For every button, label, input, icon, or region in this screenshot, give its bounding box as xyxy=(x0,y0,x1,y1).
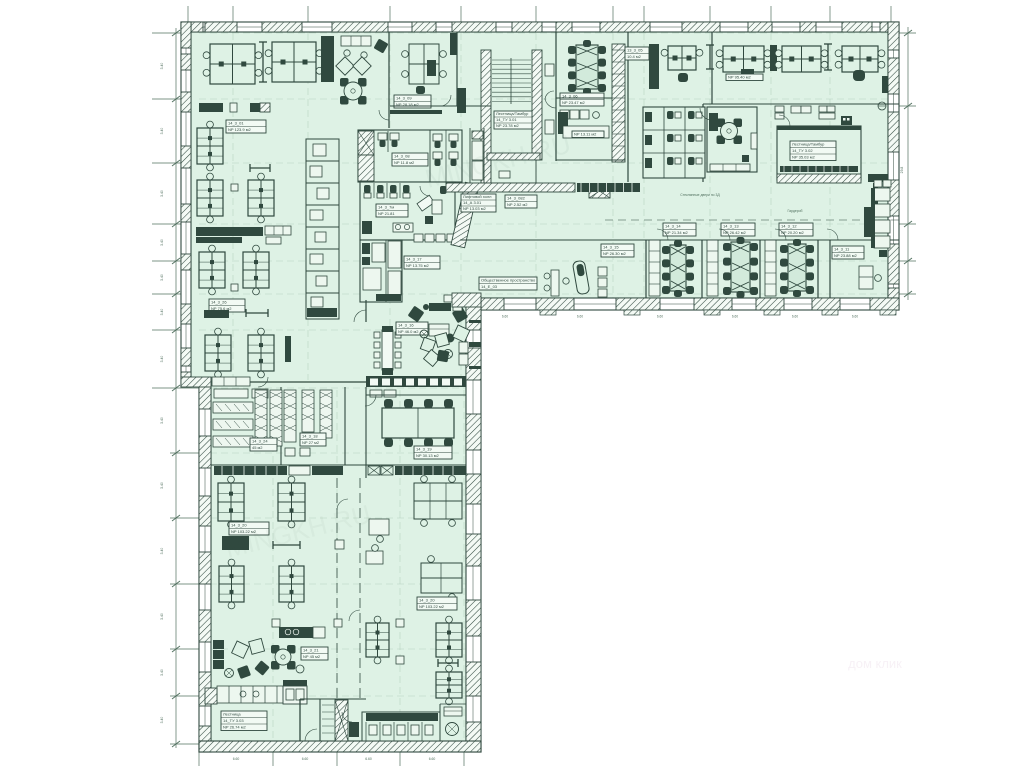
svg-text:14_3_20: 14_3_20 xyxy=(419,598,435,603)
step wall left xyxy=(181,377,211,387)
svg-text:14_ТУ 3.02: 14_ТУ 3.02 xyxy=(792,148,813,153)
hatched shaft x612 xyxy=(612,44,625,162)
label 14_3_15 xyxy=(601,244,634,257)
dark item + label NP 95.40 xyxy=(741,69,754,76)
server room wall x366 xyxy=(365,387,367,478)
meeting room 707 outline xyxy=(707,107,757,172)
wc right cell fixtures xyxy=(429,130,431,182)
svg-text:14_3_20: 14_3_20 xyxy=(231,523,247,528)
stair room coat rail xyxy=(780,166,858,172)
dark bar vertical xyxy=(873,183,878,211)
svg-text:14_3_18: 14_3_18 xyxy=(302,434,318,439)
quad desk w9 xyxy=(436,672,462,698)
plant right bottom xyxy=(446,723,459,736)
narrow corridor boxes xyxy=(545,64,554,76)
lower shaft boxes xyxy=(388,241,401,268)
svg-text:Лестница/Тамбур: Лестница/Тамбур xyxy=(792,142,825,147)
svg-text:NP 13.03 м2: NP 13.03 м2 xyxy=(463,206,486,211)
label public space xyxy=(479,277,537,290)
wall x556 xyxy=(555,32,557,161)
lounge armchair dark 2 xyxy=(237,665,251,679)
wall y104 xyxy=(703,103,899,105)
switch dark box xyxy=(841,116,852,125)
svg-text:NP 30.13 м2: NP 30.13 м2 xyxy=(416,453,439,458)
meeting room wing outline xyxy=(366,394,466,396)
meeting row dividers xyxy=(645,240,647,298)
label lift hall xyxy=(461,194,496,212)
cafe side boxes xyxy=(459,342,468,353)
printers wing xyxy=(334,619,342,627)
hatch piece left xyxy=(205,688,217,704)
cafe coffee counter xyxy=(429,303,451,311)
svg-text:14_3_082: 14_3_082 xyxy=(507,196,526,201)
bench desk right w6 xyxy=(421,563,462,593)
small boxes row mid xyxy=(775,106,784,112)
wc shaft hatched xyxy=(358,131,374,155)
whiteboard I-bar right xyxy=(827,44,829,70)
wc sink counter xyxy=(393,223,413,232)
cabinet band mid office xyxy=(196,227,263,236)
quad desk w3 xyxy=(219,566,244,602)
right office dark bar xyxy=(864,207,871,237)
door circle symbol xyxy=(878,102,886,110)
shaft column stack xyxy=(306,139,339,319)
quad desk w4 xyxy=(279,566,304,602)
server rm1 vertical racks xyxy=(255,390,267,446)
wc core outline top block xyxy=(358,130,462,182)
wc mid right fixtures xyxy=(432,200,442,214)
meeting room round table xyxy=(717,119,726,128)
left dimension line xyxy=(175,28,177,748)
svg-text:3.40: 3.40 xyxy=(160,309,164,316)
I-bar table upper xyxy=(250,167,270,169)
svg-text:14_3_12: 14_3_12 xyxy=(781,224,797,229)
quad desk w8 xyxy=(366,623,389,657)
svg-text:14_3_16: 14_3_16 xyxy=(398,323,414,328)
wc mid fixtures xyxy=(364,185,371,193)
svg-text:6.60: 6.60 xyxy=(792,315,798,319)
svg-text:NP 13.11 м2: NP 13.11 м2 xyxy=(574,132,597,137)
quad desk w7 xyxy=(436,623,462,657)
svg-text:Общественное пространство: Общественное пространство xyxy=(481,278,536,283)
svg-text:6.60: 6.60 xyxy=(365,757,372,761)
conference table room 14_3_12 xyxy=(788,244,806,291)
svg-text:14_3_09: 14_3_09 xyxy=(396,96,412,101)
dark underline office B xyxy=(390,110,442,114)
grid verticals top xyxy=(187,6,189,22)
door arc stair right xyxy=(779,115,790,126)
svg-text:14_3_01: 14_3_01 xyxy=(228,121,244,126)
pantry label xyxy=(572,131,604,138)
door arc office top xyxy=(379,110,389,120)
svg-text:6.60: 6.60 xyxy=(502,315,508,319)
svg-text:NP 103.22 м2: NP 103.22 м2 xyxy=(419,604,445,609)
server room wall x280 xyxy=(280,387,282,465)
svg-text:Лестница: Лестница xyxy=(223,712,241,717)
door arc wing corridor1 xyxy=(337,499,348,510)
svg-text:Лифтовой холл: Лифтовой холл xyxy=(463,194,492,199)
svg-text:14_ТУ 3.03: 14_ТУ 3.03 xyxy=(223,718,244,723)
right office desk xyxy=(859,266,873,289)
dark cabinet wing left xyxy=(222,536,249,550)
svg-text:6.60: 6.60 xyxy=(233,757,240,761)
stair mid hatched band xyxy=(487,153,540,160)
wc mid row outline xyxy=(360,182,455,240)
server rm2 vertical racks xyxy=(284,390,296,442)
svg-text:Стеклянные двери по 3Д: Стеклянные двери по 3Д xyxy=(680,193,720,197)
lift hall below stair xyxy=(491,160,536,183)
plant circle 1 xyxy=(420,330,428,338)
stair east hatched wall xyxy=(532,50,542,160)
cafe label xyxy=(396,322,428,335)
svg-text:6.60: 6.60 xyxy=(429,757,436,761)
svg-text:13_3_05: 13_3_05 xyxy=(627,48,643,53)
conference room 14_3_06 table xyxy=(576,45,598,89)
server rm1 racks xyxy=(213,402,253,413)
lounge small table xyxy=(296,665,304,673)
svg-text:6.60: 6.60 xyxy=(302,757,309,761)
lounge couch stack xyxy=(213,640,224,649)
stair room top dark band xyxy=(777,126,861,130)
door arc wc bottom wing xyxy=(342,712,352,722)
cafe sofa xyxy=(429,324,449,336)
access shaft strip 1 xyxy=(649,240,660,296)
plant circle 2 xyxy=(444,350,453,359)
svg-text:3.40: 3.40 xyxy=(160,128,164,135)
svg-text:Лестница/Тамбур: Лестница/Тамбур xyxy=(496,111,529,116)
low cabinets row left office xyxy=(199,103,223,112)
chair column small xyxy=(598,267,607,276)
whiteboard I-bar xyxy=(262,42,264,82)
label 14_3_17 xyxy=(404,256,440,269)
meeting room tv board xyxy=(751,133,757,149)
svg-text:NP 21.81: NP 21.81 xyxy=(378,211,395,216)
corridor hatch band left xyxy=(446,183,575,192)
svg-text:3.40: 3.40 xyxy=(160,482,164,489)
quad desk w2 xyxy=(278,483,305,521)
server rooms bottom wall y465 xyxy=(211,464,466,466)
cafe armchair group xyxy=(420,337,435,352)
svg-text:3.40: 3.40 xyxy=(160,613,164,620)
svg-text:3.40: 3.40 xyxy=(160,669,164,676)
cabinet band right dark xyxy=(395,466,466,475)
server room wall x345 xyxy=(344,387,346,465)
office desk B xyxy=(409,44,439,84)
stair room label xyxy=(790,141,836,161)
svg-text:14_3_26: 14_3_26 xyxy=(211,300,227,305)
hatched diagonal lobby wall xyxy=(451,182,479,248)
svg-text:14_3_15: 14_3_15 xyxy=(603,245,619,250)
lounge chaise xyxy=(572,260,590,295)
stair west hatched wall xyxy=(481,50,491,183)
dark block x457 xyxy=(457,88,466,113)
desk cluster C1 xyxy=(723,46,764,72)
wc row left fixture xyxy=(349,722,359,737)
svg-text:NP 23.88 м2: NP 23.88 м2 xyxy=(834,253,857,258)
door arc office2 top xyxy=(440,95,451,106)
desk cluster C3 xyxy=(842,46,878,72)
svg-text:3.40: 3.40 xyxy=(160,239,164,246)
right office top boxes xyxy=(874,180,882,187)
dark strip divider xyxy=(770,45,777,71)
wc block right outline xyxy=(643,107,705,178)
small boxes server rm2 xyxy=(285,448,295,456)
exterior wall left xyxy=(181,22,191,387)
locker row dark band xyxy=(366,376,466,387)
printer boxes xyxy=(231,184,238,191)
door arc meeting room 2 xyxy=(719,229,730,240)
label 14_3_19 xyxy=(414,446,452,459)
stair treads xyxy=(492,59,531,61)
desk cluster C2 xyxy=(782,46,821,72)
svg-text:дом клик: дом клик xyxy=(848,656,902,671)
svg-text:Гардероб: Гардероб xyxy=(788,209,803,213)
corridor hatch band right xyxy=(777,174,861,183)
label 14_3_09 office B xyxy=(394,95,431,108)
lounge plant xyxy=(225,669,234,678)
tiny round table xyxy=(563,278,569,284)
I-bar wing left xyxy=(273,544,300,546)
label wc mid xyxy=(376,204,408,217)
conference table room 14_3_13 xyxy=(731,242,750,292)
svg-text:14_А 3.01: 14_А 3.01 xyxy=(463,200,482,205)
stair label xyxy=(494,111,532,129)
wing bottom door arcs xyxy=(305,729,317,741)
svg-text:NP 123.9 м2: NP 123.9 м2 xyxy=(228,127,251,132)
wall y106 office bottom xyxy=(390,105,481,107)
svg-text:14_ТУ 3.01: 14_ТУ 3.01 xyxy=(496,117,517,122)
vru panel boxes xyxy=(370,390,382,397)
svg-text:29.8: 29.8 xyxy=(900,167,904,174)
wing wc row outline xyxy=(362,712,440,741)
dark cabinet right wall xyxy=(882,76,888,93)
I-bar wing right xyxy=(438,662,458,664)
svg-text:14_3_19: 14_3_19 xyxy=(416,447,432,452)
svg-text:14_3_17: 14_3_17 xyxy=(406,257,422,262)
svg-text:NP 21.34 м2: NP 21.34 м2 xyxy=(665,230,688,235)
corridor door arc xyxy=(545,91,554,100)
svg-text:NP 13.75 м2: NP 13.75 м2 xyxy=(406,263,429,268)
exterior wall wing bottom xyxy=(199,741,481,752)
wing right glazing mullions xyxy=(469,320,481,323)
label 14_3_12 xyxy=(779,223,813,236)
svg-text:NP 11.8 м2: NP 11.8 м2 xyxy=(394,160,415,165)
office 14_3_01 desk cluster A1 xyxy=(210,44,255,84)
wardrobe cabinet row xyxy=(577,183,640,192)
cabinet row on step wall xyxy=(212,377,250,386)
svg-text:NP 23.78 м2: NP 23.78 м2 xyxy=(496,123,519,128)
svg-text:3.40: 3.40 xyxy=(160,548,164,555)
cafe armchair dark 1 xyxy=(408,306,425,323)
wc lower block xyxy=(360,240,402,302)
svg-text:NP 95.40 м2: NP 95.40 м2 xyxy=(728,75,751,80)
lounge armchair white 2 xyxy=(249,638,265,654)
svg-text:14_Е_03: 14_Е_03 xyxy=(481,284,498,289)
wall x703 xyxy=(702,104,704,182)
lounge diamond chair 1 xyxy=(336,57,354,75)
open office quad desks left column xyxy=(197,128,223,164)
right office cabinets xyxy=(874,188,890,201)
pantry fixtures xyxy=(560,110,569,119)
cafe dark circle xyxy=(446,334,455,343)
office desk cluster xyxy=(668,46,696,70)
door arc conference xyxy=(545,98,556,108)
label 14_3_14 xyxy=(663,223,696,236)
dark cabinet at wall xyxy=(450,33,457,55)
svg-text:6.60: 6.60 xyxy=(732,315,738,319)
reception small tables xyxy=(344,50,350,56)
label 14_3_20 right xyxy=(417,597,457,610)
svg-text:45 м2: 45 м2 xyxy=(252,445,263,450)
whiteboard xyxy=(709,45,711,69)
meeting room big table xyxy=(382,408,454,438)
exterior wall right xyxy=(888,22,899,310)
corridor bottom line xyxy=(460,239,899,241)
svg-text:3.40: 3.40 xyxy=(160,717,164,724)
pantry bottom wall xyxy=(556,159,625,161)
reception armchair dark xyxy=(373,38,388,53)
wc top fixtures xyxy=(378,133,387,140)
label 14_3_20 left xyxy=(229,522,269,535)
reception round meeting table xyxy=(340,78,349,87)
conference table room 14_3_14 xyxy=(670,245,686,291)
small table left xyxy=(551,270,559,296)
dark base lower block xyxy=(376,294,401,301)
bench desk right w5 xyxy=(414,483,462,519)
svg-text:6.60: 6.60 xyxy=(577,315,583,319)
svg-text:14_3_13: 14_3_13 xyxy=(723,224,739,229)
grid horizontals xyxy=(152,32,183,34)
reception sideboard xyxy=(341,36,371,46)
label 13_3_05 xyxy=(625,47,649,60)
label 14_3_13 xyxy=(721,223,755,236)
label server rm2 xyxy=(300,433,326,446)
exterior wall top xyxy=(181,22,899,32)
door arc wing corridor2 xyxy=(349,610,360,621)
svg-text:6.60: 6.60 xyxy=(852,315,858,319)
office credenza dark xyxy=(427,60,436,76)
right bottom room xyxy=(439,704,441,741)
right dimension line xyxy=(907,27,909,300)
lounge round table xyxy=(271,645,280,654)
door arc right office mid xyxy=(700,108,712,120)
door arc meeting room 4 xyxy=(827,229,838,240)
svg-text:14_3_08: 14_3_08 xyxy=(394,154,410,159)
stair room right outline xyxy=(777,126,861,180)
wall reception/office x389 xyxy=(388,32,390,128)
tilted sign xyxy=(417,195,434,211)
svg-text:NP 2.52 м2: NP 2.52 м2 xyxy=(507,202,528,207)
corridor wall x337 xyxy=(336,478,338,700)
label 14_3_06 xyxy=(560,93,604,106)
stair treads bottom xyxy=(322,704,334,706)
stair bottom walls xyxy=(299,699,301,741)
corridor top line right xyxy=(605,219,899,221)
svg-text:6.60: 6.60 xyxy=(657,315,663,319)
meeting room low cabinets xyxy=(710,164,750,171)
svg-text:3.40: 3.40 xyxy=(160,190,164,197)
label 14_3_11 xyxy=(832,246,864,259)
exterior wall bottom of right bar xyxy=(472,298,899,310)
svg-text:NP 35.03 м2: NP 35.03 м2 xyxy=(792,155,815,160)
dark band right end xyxy=(868,174,888,182)
door arc wing server xyxy=(258,377,268,387)
svg-text:NP 27 м2: NP 27 м2 xyxy=(302,440,320,445)
door arc cafe xyxy=(354,310,366,322)
wardrobe dark xyxy=(649,44,659,89)
door arc wing meeting xyxy=(365,395,376,406)
door arc wc core xyxy=(420,186,430,196)
wing wc dark band xyxy=(366,713,438,721)
svg-text:3.40: 3.40 xyxy=(160,274,164,281)
svg-text:14_3_7м: 14_3_7м xyxy=(378,205,394,210)
cabinet dark below label xyxy=(204,310,229,318)
label 14_3_01 xyxy=(226,120,266,133)
meeting room credenza xyxy=(709,113,718,131)
wc right fixtures xyxy=(667,111,674,119)
elevator shaft boxes left xyxy=(469,128,471,183)
lounge diamond chair 2 xyxy=(353,57,371,75)
svg-text:3.40: 3.40 xyxy=(160,356,164,363)
shaft xbox corridor xyxy=(589,184,610,198)
wall x457 office divider xyxy=(456,32,458,106)
cafe white chair right xyxy=(453,325,470,342)
svg-text:NP 23.47 м2: NP 23.47 м2 xyxy=(562,100,585,105)
svg-text:14_3_21: 14_3_21 xyxy=(303,648,319,653)
stair shaft hatch xyxy=(335,700,348,741)
shaft dark base xyxy=(307,308,337,317)
svg-text:14_3_11: 14_3_11 xyxy=(834,247,850,252)
dark chair blob xyxy=(853,70,865,81)
locker dark strip xyxy=(285,336,291,362)
L-desk single 2 xyxy=(366,551,383,564)
wall x712 xyxy=(711,32,713,104)
I-bar table xyxy=(246,312,268,314)
building footprint fill xyxy=(181,22,899,752)
cabinet band left dark xyxy=(214,466,287,475)
svg-text:14_3_14: 14_3_14 xyxy=(665,224,681,229)
door arc meeting room 1 xyxy=(657,229,668,240)
door arc meeting room 3 xyxy=(775,229,786,240)
kitchen counter dark xyxy=(279,627,313,638)
L-desk single 1 xyxy=(369,519,389,535)
xboxes band xyxy=(368,466,380,475)
lounge armchair dark 1 xyxy=(254,660,269,675)
hatched block inner corner xyxy=(452,293,481,307)
svg-text:NP 46.0 м2: NP 46.0 м2 xyxy=(398,329,419,334)
access shaft strip 3 xyxy=(765,240,776,296)
wing wc cubicles xyxy=(365,722,367,741)
wall x628 xyxy=(627,32,629,182)
access shaft strip 2 xyxy=(707,240,718,296)
label 14_3_08 xyxy=(392,153,428,166)
corridor wall x360 xyxy=(359,478,361,700)
svg-text:10.4 м2: 10.4 м2 xyxy=(627,54,642,59)
label 14_3_082 xyxy=(505,195,537,208)
step wall mid line xyxy=(250,381,366,383)
cafe wall x366 top xyxy=(365,300,367,322)
server rm1 top cabinets xyxy=(214,389,248,398)
svg-text:3.40: 3.40 xyxy=(160,417,164,424)
lounge armchair white 1 xyxy=(232,641,249,658)
wall y98 conf bottom xyxy=(556,97,612,99)
exterior wall wing left xyxy=(199,381,211,752)
label 14_3_26 xyxy=(209,299,245,312)
stair bottom label xyxy=(221,711,267,731)
row of small boxes xyxy=(414,234,423,242)
exterior wall wing right xyxy=(466,298,481,752)
svg-text:3.40: 3.40 xyxy=(160,63,164,70)
